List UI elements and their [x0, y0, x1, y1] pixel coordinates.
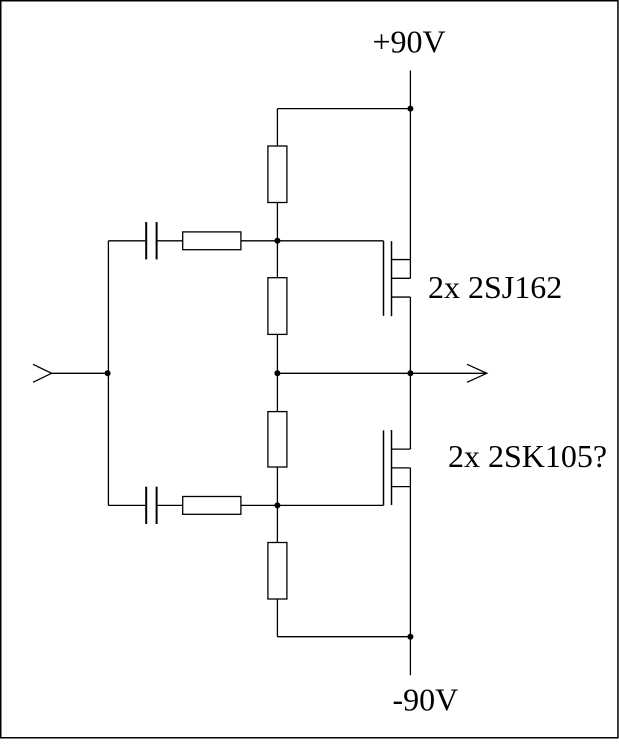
- node center junction: [274, 370, 280, 376]
- label 2x 2SK105?: [448, 438, 607, 474]
- wire C2 to R6: [158, 504, 183, 506]
- resistor R2 (second vertical): [268, 278, 287, 335]
- wire +90V rail upper segment: [409, 71, 411, 279]
- svg-text:-90V: -90V: [393, 682, 459, 718]
- resistor R3 (third vertical): [268, 412, 287, 467]
- svg-text:+90V: +90V: [373, 24, 446, 60]
- wire R2 to R3: [276, 334, 278, 411]
- wire chain top to R1: [276, 109, 278, 146]
- transistor Q1 (2x 2SJ162, upper MOSFET): [384, 241, 411, 316]
- capacitor C2: [146, 487, 156, 524]
- wire R3 to R4: [276, 467, 278, 543]
- capacitor C1: [146, 222, 156, 259]
- wire rail lower segment (Q2 source to -90V): [409, 468, 411, 675]
- resistor R1 (top vertical): [268, 146, 287, 203]
- wire upper gate net: corner to C1: [108, 240, 145, 242]
- wire R6 to Q2 gate: [241, 504, 384, 506]
- wire left vertical: [107, 241, 109, 506]
- label 2x 2SJ162: [428, 269, 562, 305]
- node output junction: [407, 370, 413, 376]
- node bottom-right junction: [407, 634, 413, 640]
- node upper gate junction: [274, 238, 280, 244]
- resistor R4 (bottom vertical): [268, 543, 287, 600]
- wire R4 to bottom corner: [276, 599, 278, 637]
- wire bottom horizontal: [277, 636, 410, 638]
- wire input: [52, 372, 108, 374]
- label -90V: [393, 682, 459, 718]
- node input junction: [105, 370, 111, 376]
- label +90V: [373, 24, 446, 60]
- wire output: [277, 372, 486, 374]
- wire R1 to R2: [276, 203, 278, 278]
- input arrow chevron: [33, 364, 52, 382]
- svg-text:2x 2SK105?: 2x 2SK105?: [448, 438, 607, 474]
- wire lower gate net: corner to C2: [108, 504, 145, 506]
- svg-text:2x 2SJ162: 2x 2SJ162: [428, 269, 562, 305]
- resistor R5 (upper horizontal): [183, 232, 241, 250]
- node lower gate junction: [274, 502, 280, 508]
- wire rail middle segment (Q1 source to output, down to Q2 drain): [409, 297, 411, 449]
- output arrow chevron: [467, 364, 487, 382]
- transistor Q2 (2x 2SK105?, lower MOSFET): [384, 430, 411, 505]
- wire R5 to Q1 gate: [241, 240, 384, 242]
- wire top horizontal: [277, 108, 410, 110]
- node top-right junction: [407, 106, 413, 112]
- wire C1 to R5: [158, 240, 183, 242]
- resistor R6 (lower horizontal): [183, 497, 241, 515]
